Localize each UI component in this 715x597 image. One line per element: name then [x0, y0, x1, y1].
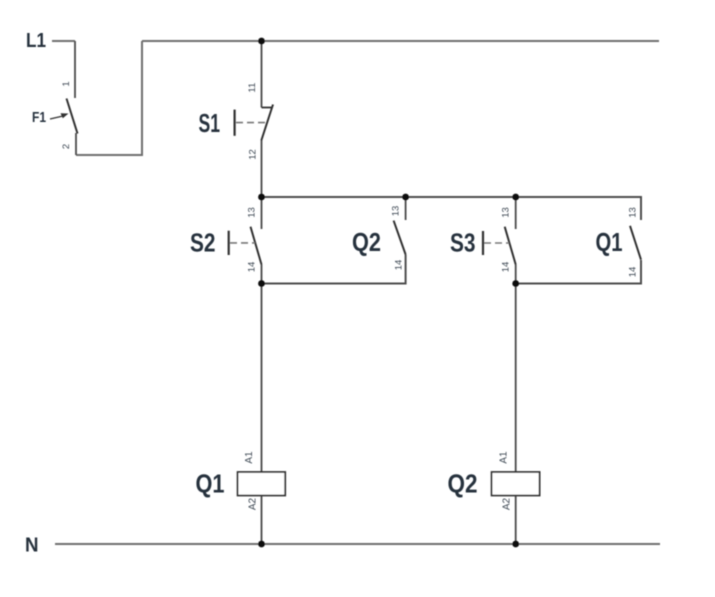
svg-text:S3: S3	[450, 228, 476, 258]
svg-text:Q2: Q2	[448, 469, 478, 499]
svg-text:13: 13	[627, 207, 638, 218]
coil Q2	[448, 451, 540, 510]
coil Q1	[196, 451, 286, 510]
svg-text:S1: S1	[199, 108, 221, 138]
wire F1 bottom terminal	[75, 133, 77, 155]
node junction mid rail / Q2 contact	[402, 194, 409, 201]
node junction mid rail / S2	[258, 194, 265, 201]
svg-text:Q1: Q1	[196, 469, 225, 499]
wire top rail L1	[142, 40, 659, 42]
svg-text:11: 11	[247, 83, 258, 93]
wire Q2 coil to N	[515, 496, 517, 545]
svg-text:Q2: Q2	[352, 227, 381, 257]
breaker F1	[32, 81, 78, 149]
svg-text:13: 13	[500, 207, 511, 218]
wire mid rail	[262, 197, 642, 220]
wire Q1 coil feed	[261, 284, 263, 473]
wire left sub-rail	[262, 255, 406, 284]
node junction N rail / Q1 coil	[258, 541, 265, 548]
svg-text:2: 2	[61, 144, 72, 149]
svg-text:14: 14	[393, 260, 404, 271]
svg-text:Q1: Q1	[596, 227, 623, 257]
wire S3 bottom terminal	[515, 265, 517, 284]
wire S1 bottom terminal	[261, 141, 263, 198]
svg-text:13: 13	[390, 206, 401, 217]
wire F1 top terminal	[74, 41, 76, 98]
svg-text:1: 1	[61, 81, 72, 86]
svg-text:A2: A2	[502, 497, 513, 510]
wire F1 loop	[76, 41, 142, 155]
wire right sub-rail	[516, 260, 641, 284]
switch S1 (NC pushbutton)	[199, 83, 274, 160]
wire S2 bottom terminal	[261, 265, 263, 284]
wire Q2 coil feed	[515, 284, 517, 473]
wire S2 top terminal	[261, 197, 263, 229]
wire Q2 contact top terminal	[405, 197, 407, 220]
wire N rail	[55, 543, 660, 545]
svg-text:L1: L1	[26, 30, 46, 52]
node junction left sub-rail / S2 bottom	[258, 280, 265, 287]
svg-text:14: 14	[246, 262, 257, 273]
wire S3 top terminal	[515, 197, 517, 229]
svg-text:S2: S2	[190, 228, 216, 258]
node junction top rail / S1	[258, 38, 265, 45]
svg-text:A2: A2	[247, 497, 258, 510]
svg-text:N: N	[25, 535, 39, 557]
svg-text:F1: F1	[32, 109, 46, 126]
contact Q1 (aux NO)	[596, 207, 642, 277]
svg-text:12: 12	[248, 149, 259, 160]
switch S3 (NO pushbutton)	[450, 207, 516, 272]
switch S2 (NO pushbutton)	[190, 207, 262, 272]
svg-text:A1: A1	[244, 451, 255, 464]
svg-text:14: 14	[500, 262, 511, 273]
node junction right sub-rail / S3 bottom	[512, 280, 519, 287]
svg-text:A1: A1	[498, 451, 509, 464]
wire Q1 coil to N	[261, 496, 263, 545]
svg-text:14: 14	[627, 267, 638, 278]
node junction N rail / Q2 coil	[512, 541, 519, 548]
contact Q2 (aux NO)	[352, 206, 406, 271]
svg-text:13: 13	[246, 207, 257, 218]
wire L1 stub	[52, 40, 75, 42]
wire S1 top terminal	[261, 41, 263, 108]
node junction mid rail / S3	[512, 194, 519, 201]
